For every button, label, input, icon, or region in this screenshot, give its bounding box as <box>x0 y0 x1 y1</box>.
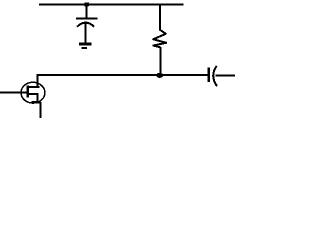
wire: drain vertical into transistor Q1 <box>36 74 38 88</box>
capacitor C2 left plate (straight) <box>208 68 210 82</box>
wire: C1 lead down to ground <box>85 23 87 44</box>
transistor Q1 source line <box>27 93 38 95</box>
wire: rail down to resistor R1 <box>159 5 161 30</box>
capacitor C1 top plate (straight) <box>76 18 98 20</box>
transistor Q1 gate/channel bar <box>27 86 29 98</box>
wire: source inner vertical <box>36 93 38 103</box>
resistor R1 zigzag <box>153 30 166 48</box>
node: junction dot on top rail <box>84 2 89 6</box>
wire: resistor bottom lead to node <box>160 47 162 75</box>
capacitor C2 right plate (curved) <box>213 66 217 86</box>
transistor Q1 envelope circle <box>21 82 45 103</box>
wire: gate lead from left edge <box>0 92 28 94</box>
node: junction dot at resistor/output net <box>156 73 163 78</box>
capacitor C1 bottom plate (curved) <box>77 23 94 27</box>
wire: top supply rail <box>39 4 184 6</box>
wire: main horizontal net (drain to C2) <box>36 74 208 76</box>
wire: stub from rail down to capacitor C1 <box>85 5 87 19</box>
ground bar 1 <box>79 43 92 46</box>
wire: source lead down to bottom edge <box>40 102 42 118</box>
wire: source joint along circle bottom <box>32 101 41 104</box>
transistor Q1 drain line <box>27 86 39 88</box>
wire: output to right edge <box>216 75 235 77</box>
ground bar 2 <box>82 47 87 49</box>
